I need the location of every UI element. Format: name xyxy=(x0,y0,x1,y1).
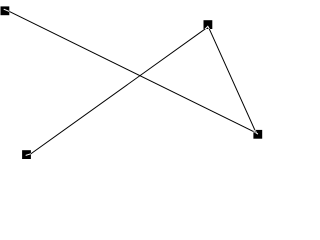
white overshoot past vertex at D xyxy=(256,132,257,135)
node C (bottom-left square) xyxy=(22,150,31,159)
white segment inside node C xyxy=(26,154,31,156)
node B (top-right square) xyxy=(204,20,213,29)
white wedge at node D corner (XOR merge artifact) xyxy=(253,130,256,133)
XOR white marks inside node squares xyxy=(4,9,258,155)
white V inside node D xyxy=(253,130,256,133)
node D (right square) xyxy=(253,130,262,139)
wire edge A-D xyxy=(4,9,256,133)
white segment inside node A xyxy=(4,9,9,11)
wire edge B-D xyxy=(208,27,256,133)
wire edge C-B xyxy=(26,27,208,157)
white chevron inside node B xyxy=(205,26,210,29)
faint dark trace of edge A-D through the wedge xyxy=(253,132,255,133)
node A (top-left square) xyxy=(1,6,10,15)
faint dark trace of edge B-D through the wedge xyxy=(255,130,256,133)
